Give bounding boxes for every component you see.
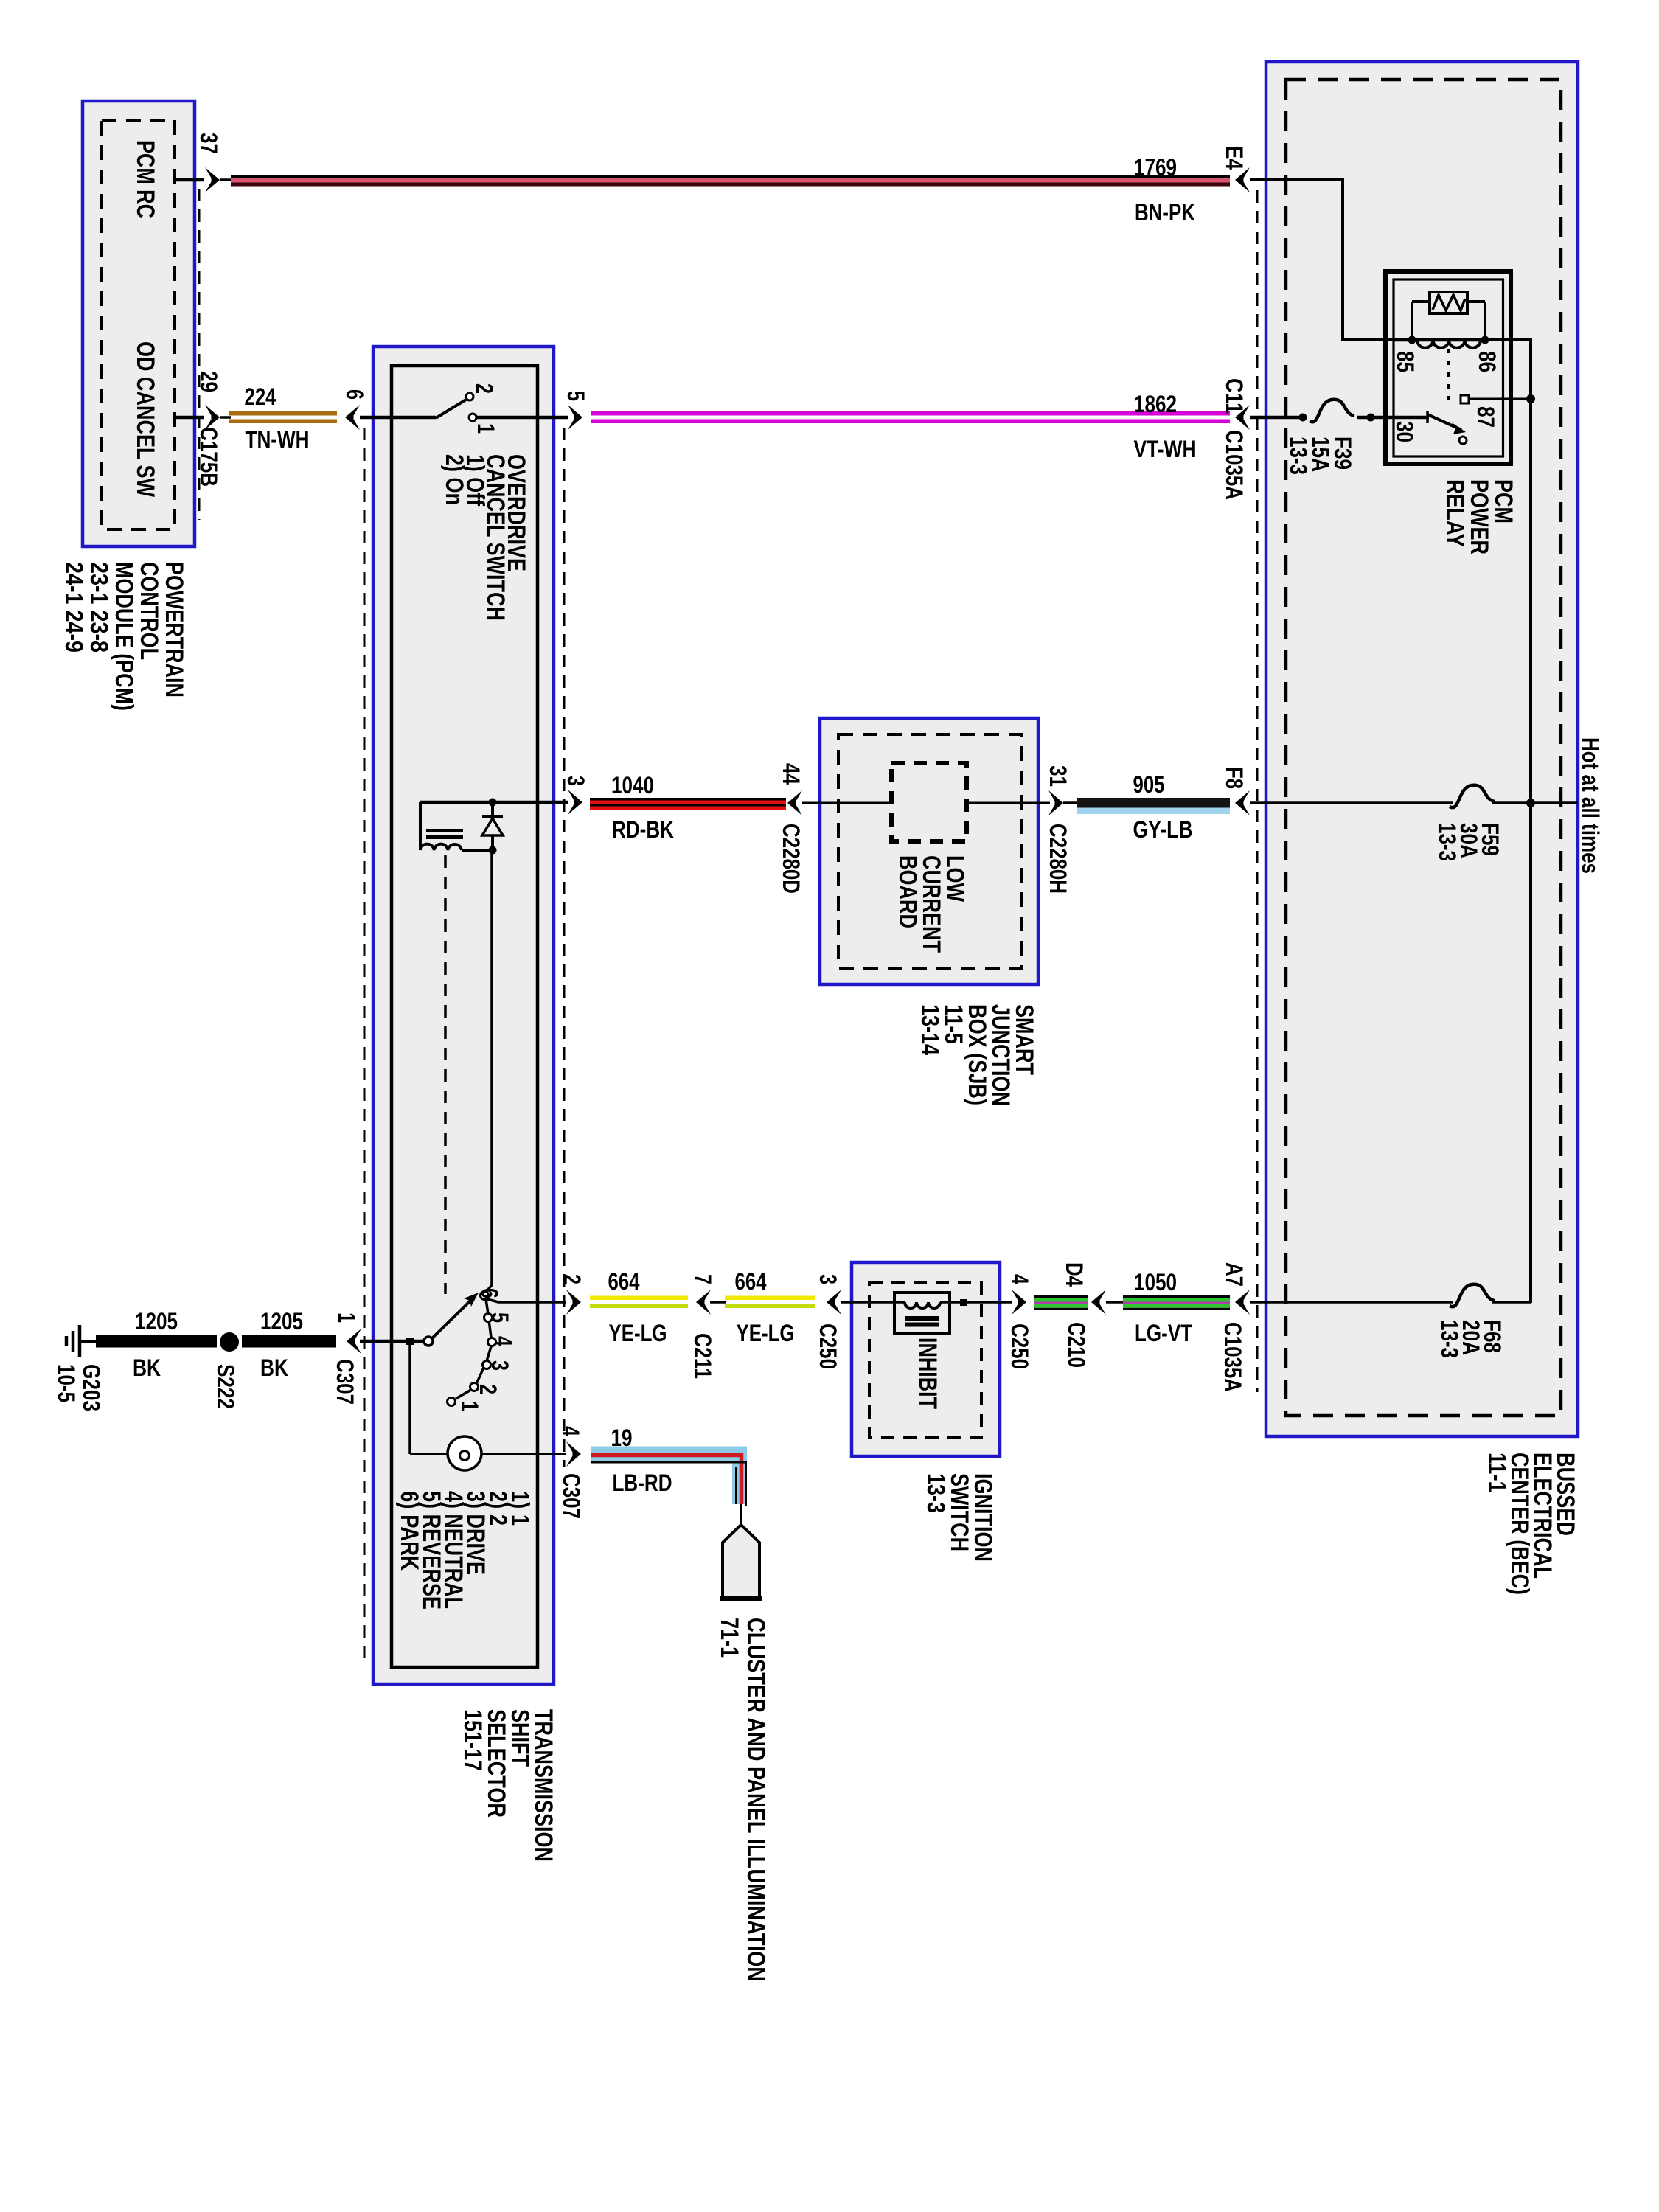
connector arrow C11 <box>1221 378 1250 500</box>
svg-text:2: 2 <box>559 1274 585 1284</box>
svg-text:2: 2 <box>471 383 498 394</box>
svg-text:TN-WH: TN-WH <box>246 426 310 453</box>
svg-text:F3915A13-3: F3915A13-3 <box>1285 437 1356 475</box>
svg-text:5: 5 <box>487 1312 513 1323</box>
connector arrow 4 C307 <box>557 1426 585 1519</box>
ground G203 <box>53 1325 105 1411</box>
label CLUSTER AND PANEL ILLUMINATION 71-1 <box>715 1618 770 1981</box>
svg-text:RD-BK: RD-BK <box>612 816 674 843</box>
bus from relay 86 to fuses <box>1485 340 1535 1303</box>
svg-text:C250: C250 <box>1006 1324 1033 1369</box>
svg-text:2: 2 <box>475 1384 501 1394</box>
wire 664 YE-LG segment 2 <box>710 1268 815 1346</box>
module BEC (BUSSED ELECTRICAL CENTER) box <box>1266 62 1578 1436</box>
svg-text:4: 4 <box>1006 1274 1033 1284</box>
svg-text:664: 664 <box>735 1268 767 1295</box>
pin 29 stub <box>175 371 222 487</box>
relay pin 30 switch blade <box>1391 411 1467 444</box>
svg-text:1050: 1050 <box>1134 1269 1177 1295</box>
svg-text:6: 6 <box>341 389 368 400</box>
svg-text:1: 1 <box>473 423 499 434</box>
svg-text:3: 3 <box>815 1274 841 1284</box>
svg-text:71-1: 71-1 <box>715 1618 743 1658</box>
svg-text:LB-RD: LB-RD <box>613 1470 672 1496</box>
svg-text:1205: 1205 <box>260 1308 303 1335</box>
svg-text:BN-PK: BN-PK <box>1135 199 1195 226</box>
fuse F68 20A <box>1250 1284 1531 1358</box>
svg-text:664: 664 <box>608 1268 640 1295</box>
wire 1205 BK segment 2 <box>242 1308 336 1381</box>
svg-text:C2280D: C2280D <box>778 824 804 894</box>
svg-text:905: 905 <box>1133 771 1165 798</box>
connector arrow 7 C211 <box>689 1274 716 1379</box>
svg-text:1: 1 <box>456 1401 483 1411</box>
svg-text:6: 6 <box>476 1288 503 1298</box>
svg-text:30: 30 <box>1391 421 1418 442</box>
connector arrow 44 C2280D <box>778 763 804 894</box>
wire LG-VT short segment <box>1034 1295 1088 1298</box>
wire into SJB <box>802 802 893 804</box>
wire 224 TN-WH <box>220 383 337 453</box>
svg-text:C307: C307 <box>558 1473 585 1519</box>
connector C1035A dashed line <box>1256 190 1259 1392</box>
svg-text:C210: C210 <box>1063 1322 1090 1368</box>
svg-text:3: 3 <box>487 1360 513 1371</box>
svg-text:YE-LG: YE-LG <box>737 1320 795 1346</box>
svg-text:PCM RC: PCM RC <box>131 140 159 218</box>
svg-text:YE-LG: YE-LG <box>609 1320 667 1346</box>
svg-text:7: 7 <box>689 1274 716 1284</box>
od cancel switch S1 <box>360 383 568 434</box>
svg-text:87: 87 <box>1472 406 1499 428</box>
wire 905 GY-LB <box>1063 771 1230 843</box>
svg-text:F6820A13-3: F6820A13-3 <box>1436 1320 1506 1358</box>
svg-text:BK: BK <box>133 1354 161 1381</box>
svg-text:1040: 1040 <box>611 772 654 799</box>
svg-text:1205: 1205 <box>135 1308 178 1335</box>
wire 1050 LG-VT <box>1106 1269 1230 1346</box>
overdrive cancel solenoid L1 with diode <box>420 799 568 1295</box>
wire 1205 BK segment 1 <box>96 1308 217 1381</box>
splice S222 <box>212 1332 239 1409</box>
relay coil line 85-86 <box>1394 340 1484 348</box>
SJB low current board dashed box <box>891 763 969 953</box>
ignition inhibit coil <box>894 1293 967 1409</box>
pin 37 stub <box>175 133 222 192</box>
wire 1040 RD-BK <box>590 772 786 843</box>
svg-text:44: 44 <box>778 763 804 785</box>
svg-text:E4: E4 <box>1221 146 1248 170</box>
svg-text:37: 37 <box>195 133 222 154</box>
connector dashed line (right of selector box) <box>563 428 566 1467</box>
svg-text:C250: C250 <box>815 1324 841 1369</box>
svg-text:224: 224 <box>245 383 276 410</box>
module Overdrive-cancel-switch / shift-selector box <box>373 347 554 1684</box>
svg-text:LG-VT: LG-VT <box>1135 1320 1192 1346</box>
wire 1769 BN-PK <box>220 154 1230 226</box>
svg-text:S222: S222 <box>212 1364 239 1409</box>
svg-text:BK: BK <box>260 1354 288 1381</box>
svg-text:4: 4 <box>557 1426 584 1436</box>
relay suppression resistor <box>1412 292 1485 340</box>
svg-text:C11: C11 <box>1221 378 1248 414</box>
module PCM (POWERTRAIN CONTROL MODULE) box <box>83 101 195 546</box>
module IGNITION SWITCH box <box>852 1262 1000 1456</box>
svg-text:1769: 1769 <box>1134 154 1177 181</box>
svg-text:CLUSTER AND PANEL ILLUMINATION: CLUSTER AND PANEL ILLUMINATION <box>742 1618 770 1981</box>
svg-text:85: 85 <box>1392 351 1419 372</box>
connector arrow 2 (selector) <box>559 1274 585 1315</box>
svg-text:A7: A7 <box>1221 1262 1248 1287</box>
relay armature dotted link <box>1447 349 1450 405</box>
svg-text:1862: 1862 <box>1134 391 1177 417</box>
svg-text:5: 5 <box>563 391 589 401</box>
connector arrow F8 <box>1221 767 1250 815</box>
svg-text:Hot at all times: Hot at all times <box>1577 737 1604 874</box>
svg-text:1: 1 <box>333 1312 360 1323</box>
lamp branch <box>406 1338 448 1454</box>
relay pin 86 junction <box>1474 336 1500 373</box>
relay U1 PCM POWER RELAY box <box>1385 271 1511 464</box>
svg-text:29: 29 <box>195 371 222 392</box>
connector C175B dashed line <box>198 189 201 520</box>
relay pin 87 contact <box>1461 395 1526 428</box>
relay pin 85 junction <box>1392 336 1419 373</box>
svg-text:C175B: C175B <box>195 427 222 487</box>
connector C307/C175B dashed line (left of selector box) <box>364 428 366 1660</box>
svg-text:86: 86 <box>1474 351 1500 372</box>
connector arrow 5 <box>563 391 589 430</box>
svg-text:C2280H: C2280H <box>1045 824 1071 894</box>
connector arrow 3 (solenoid feed) <box>563 776 589 815</box>
wire contact6 to pin 2 <box>487 1299 566 1302</box>
connector arrow 4 C250 <box>1006 1274 1033 1369</box>
module SJB (SMART JUNCTION BOX) <box>820 718 1038 984</box>
off-page connector to cluster <box>720 1525 762 1599</box>
svg-text:C1035A: C1035A <box>1221 430 1248 500</box>
svg-text:F8: F8 <box>1221 767 1248 789</box>
svg-text:3: 3 <box>563 776 589 786</box>
fuse F39 15A <box>1250 400 1398 475</box>
svg-text:4: 4 <box>490 1336 517 1346</box>
connector arrow D4 C210 <box>1061 1262 1106 1368</box>
svg-text:19: 19 <box>611 1425 633 1451</box>
svg-text:D4: D4 <box>1061 1262 1088 1287</box>
svg-text:C307: C307 <box>332 1359 358 1405</box>
connector arrow A7 C1035A <box>1220 1262 1250 1392</box>
connector arrow 1 C307 <box>332 1312 361 1405</box>
connector arrow 31 C2280H <box>1045 765 1071 894</box>
svg-text:VT-WH: VT-WH <box>1134 436 1197 462</box>
svg-text:INHIBIT: INHIBIT <box>914 1338 942 1409</box>
svg-text:GY-LB: GY-LB <box>1133 816 1193 843</box>
svg-text:OD CANCEL SW: OD CANCEL SW <box>131 341 159 498</box>
illumination lamp DS1 <box>448 1436 566 1470</box>
wire 1862 VT-WH <box>591 391 1230 462</box>
connector arrow 6 (OD cancel switch) <box>341 389 368 430</box>
svg-text:31: 31 <box>1045 765 1071 787</box>
wire 664 YE-LG segment 1 <box>590 1268 688 1346</box>
svg-text:C211: C211 <box>689 1333 716 1379</box>
fuse F59 30A <box>1250 785 1578 861</box>
wire through ignition switch <box>841 1301 1012 1304</box>
connector arrow 3 C250 <box>815 1274 841 1369</box>
svg-text:C1035A: C1035A <box>1220 1322 1246 1392</box>
wire out of SJB <box>967 802 1050 804</box>
svg-text:F5930A13-3: F5930A13-3 <box>1434 823 1503 861</box>
connector arrow E4 <box>1221 146 1250 192</box>
transmission range switch S2 <box>360 854 517 1411</box>
wire E4 to relay coil 85 <box>1250 180 1409 340</box>
wire 19 LB-RD <box>591 1425 746 1525</box>
